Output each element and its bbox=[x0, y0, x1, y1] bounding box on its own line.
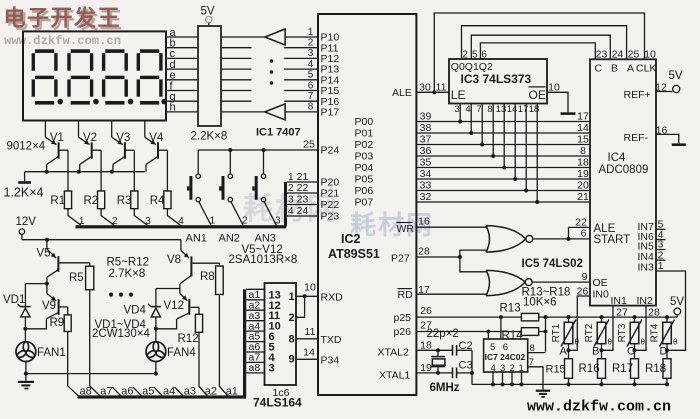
svg-text:8: 8 bbox=[308, 102, 314, 113]
node A1 V5 collector bbox=[45, 282, 49, 286]
svg-text:5V: 5V bbox=[670, 296, 684, 308]
wire IN1 to B bbox=[602, 306, 614, 351]
svg-text:5V: 5V bbox=[201, 6, 215, 18]
wire segment c left bbox=[166, 57, 198, 59]
svg-text:REF-: REF- bbox=[624, 132, 649, 144]
wire p25 to pin6 bbox=[500, 317, 502, 339]
wire IC7 gnd pin bbox=[492, 372, 494, 384]
svg-text:2SA1013R×8: 2SA1013R×8 bbox=[229, 254, 298, 266]
resistor R17 bbox=[631, 359, 639, 379]
svg-text:12V: 12V bbox=[16, 216, 37, 228]
svg-text:RXD: RXD bbox=[321, 292, 344, 304]
svg-text:2.7K×8: 2.7K×8 bbox=[109, 268, 146, 280]
wire NOR2 out bbox=[532, 281, 590, 283]
wire segment f right bbox=[221, 90, 252, 92]
ellipsis channels bbox=[109, 293, 133, 297]
wire segment g right bbox=[221, 100, 252, 102]
svg-text:XTAL1: XTAL1 bbox=[379, 370, 410, 382]
node FAN4 rail bbox=[154, 372, 158, 376]
wire IC3 pin 13 drop bbox=[503, 104, 505, 168]
wire V5 base to R5 bbox=[89, 263, 91, 266]
svg-text:33: 33 bbox=[420, 179, 432, 191]
wire node C to R17 bbox=[634, 350, 636, 358]
wire ladder rung 6 bbox=[246, 341, 264, 343]
wire vcc join bbox=[545, 317, 547, 352]
wire buffer out a bbox=[285, 36, 318, 38]
svg-text:θ: θ bbox=[641, 338, 646, 347]
pushbutton AN3 bbox=[252, 174, 276, 226]
svg-text:2CW130×4: 2CW130×4 bbox=[92, 328, 150, 340]
wire R13 right bbox=[539, 316, 546, 318]
svg-text:IC4: IC4 bbox=[608, 152, 627, 164]
wire IN4 stub bbox=[656, 259, 666, 261]
resistor R2 bbox=[98, 191, 105, 209]
fan FAN1 bbox=[16, 342, 36, 362]
svg-text:P24: P24 bbox=[321, 145, 340, 157]
svg-text:VD1: VD1 bbox=[3, 294, 25, 306]
svg-text:7: 7 bbox=[476, 104, 481, 115]
svg-text:8: 8 bbox=[288, 334, 294, 346]
power 5V display bbox=[201, 6, 215, 27]
svg-text:34: 34 bbox=[420, 168, 432, 180]
display digit 2 bbox=[67, 49, 98, 104]
wire IC3 pin 3 drop bbox=[459, 104, 461, 122]
bus tap a5 bbox=[133, 387, 141, 396]
svg-text:P06: P06 bbox=[355, 185, 374, 197]
node R17 gnd bbox=[633, 382, 637, 386]
svg-text:V8: V8 bbox=[167, 254, 181, 266]
node IC7 gnd bbox=[501, 382, 505, 386]
svg-text:2: 2 bbox=[462, 50, 468, 61]
wire R2 to bus bbox=[101, 209, 114, 226]
svg-text:2: 2 bbox=[288, 312, 294, 324]
fan FAN4 bbox=[146, 342, 166, 362]
node Q3-P03 bbox=[491, 154, 495, 158]
svg-text:a5: a5 bbox=[142, 386, 154, 398]
wire node D to R18 bbox=[666, 350, 668, 358]
wire Q2 to C bbox=[480, 43, 595, 59]
node R14 vcc bbox=[544, 330, 548, 334]
wire RT3 top bbox=[634, 317, 636, 322]
svg-text:LE: LE bbox=[451, 88, 466, 102]
node C3 gnd riser bbox=[470, 371, 474, 375]
transistor V3 9012 bbox=[112, 121, 135, 192]
svg-text:4: 4 bbox=[288, 206, 294, 217]
svg-text:36: 36 bbox=[420, 145, 432, 157]
svg-text:a2: a2 bbox=[205, 386, 217, 398]
wire caps ground bbox=[471, 350, 473, 384]
svg-text:A: A bbox=[560, 345, 568, 357]
svg-text:2: 2 bbox=[288, 183, 294, 194]
wire P16 stub bbox=[284, 100, 318, 102]
node V5 emitter bbox=[45, 238, 49, 242]
transistor V1 9012 bbox=[45, 121, 68, 192]
wire R12 to a2 tap bbox=[199, 332, 207, 396]
transistor V4 9012 bbox=[145, 121, 168, 192]
svg-text:7: 7 bbox=[308, 91, 314, 102]
svg-text:V1: V1 bbox=[50, 132, 64, 144]
wire node A to R15 bbox=[568, 350, 570, 358]
svg-text:C3: C3 bbox=[459, 359, 473, 371]
wire R18 bottom bbox=[666, 378, 668, 384]
resistor R4 bbox=[164, 191, 171, 209]
svg-text:38: 38 bbox=[420, 122, 432, 134]
wire RT3 bottom bbox=[634, 344, 636, 351]
wire ladder rung 2 bbox=[246, 299, 264, 301]
wire P04 bbox=[416, 167, 590, 169]
wire FAN1 bottom bbox=[25, 362, 27, 374]
node IC7 gnd bbox=[520, 382, 524, 386]
svg-text:a4: a4 bbox=[163, 386, 175, 398]
wire R17 bottom bbox=[634, 378, 636, 384]
wire segment b left bbox=[166, 47, 198, 49]
svg-text:14: 14 bbox=[577, 122, 589, 134]
wire IC3 pin 8 drop bbox=[492, 104, 494, 157]
wire P27 to NOR1 bbox=[460, 250, 488, 257]
thermistor RT2 bbox=[594, 320, 609, 347]
svg-text:R2: R2 bbox=[84, 195, 99, 207]
svg-text:C2: C2 bbox=[459, 340, 473, 352]
wire IC3 pin 4 drop bbox=[470, 104, 472, 134]
node VD4-FAN4 bbox=[154, 327, 158, 331]
wire WR bbox=[416, 226, 487, 228]
bus tap a4 bbox=[154, 387, 162, 396]
wire IC3 pin 18 drop bbox=[536, 104, 538, 203]
svg-text:Q0Q1Q2: Q0Q1Q2 bbox=[451, 61, 493, 73]
wire P07 bbox=[416, 201, 590, 203]
svg-text:R16: R16 bbox=[579, 363, 600, 375]
wire P03 bbox=[416, 155, 590, 157]
svg-text:10: 10 bbox=[304, 282, 316, 294]
svg-text:B: B bbox=[592, 345, 599, 357]
resistor R1 bbox=[64, 191, 71, 209]
ellipsis buffers bbox=[270, 59, 274, 85]
svg-text:WR: WR bbox=[397, 223, 415, 235]
wire ground rail bbox=[472, 383, 667, 385]
wire 5V rail bbox=[546, 316, 678, 318]
svg-text:R5: R5 bbox=[69, 272, 84, 284]
wire IN2 to C bbox=[635, 306, 647, 351]
ground REF- bbox=[656, 134, 686, 146]
ground fans bbox=[18, 374, 34, 390]
svg-text:19: 19 bbox=[577, 168, 589, 180]
node A bbox=[567, 348, 571, 352]
wire segment c right bbox=[221, 57, 252, 59]
wire IC7 gnd pin bbox=[511, 372, 513, 384]
svg-text:6: 6 bbox=[308, 80, 314, 91]
wire FAN4 bottom bbox=[155, 362, 157, 374]
node p25-SCL bbox=[499, 315, 503, 319]
svg-text:RT3: RT3 bbox=[617, 323, 628, 342]
svg-text:20: 20 bbox=[577, 179, 589, 191]
wire segment b right bbox=[221, 47, 252, 49]
svg-text:a3: a3 bbox=[184, 386, 196, 398]
svg-text:R14: R14 bbox=[502, 330, 524, 342]
svg-text:C: C bbox=[627, 345, 635, 357]
node p26-SDA bbox=[486, 330, 490, 334]
svg-text:R3: R3 bbox=[117, 195, 132, 207]
wire segment e right bbox=[221, 79, 252, 81]
wire XTAL2 bbox=[416, 349, 452, 351]
wire IC7 gnd pin bbox=[502, 372, 504, 384]
wire AN1 drop bbox=[197, 150, 199, 174]
svg-text:VD4: VD4 bbox=[124, 304, 147, 316]
display digit 1 bbox=[32, 49, 63, 104]
svg-text:6: 6 bbox=[581, 228, 587, 240]
svg-text:74LS164: 74LS164 bbox=[253, 396, 302, 410]
svg-text:XTAL2: XTAL2 bbox=[378, 347, 409, 359]
wire IN7 stub bbox=[656, 228, 666, 230]
wire P02 bbox=[416, 144, 590, 146]
wire segment h to buffer bbox=[221, 111, 265, 113]
wire XTAL1 bbox=[416, 372, 452, 374]
wire emitter rail bbox=[25, 171, 145, 173]
wire P27 to NOR2 bbox=[460, 257, 488, 272]
svg-text:8: 8 bbox=[487, 104, 492, 115]
svg-text:18: 18 bbox=[577, 156, 589, 168]
wire to START pin6 bbox=[569, 238, 591, 240]
latch IC3 74LS373 bbox=[449, 59, 547, 104]
svg-text:28: 28 bbox=[418, 246, 430, 258]
svg-text:θ: θ bbox=[673, 338, 678, 347]
svg-text:R18: R18 bbox=[645, 363, 666, 375]
node R13 vcc bbox=[544, 315, 548, 319]
node V3 rail bbox=[110, 170, 114, 174]
svg-text:P00: P00 bbox=[355, 116, 374, 128]
wire R4 to bus bbox=[167, 209, 180, 226]
wire V8 base to R8 bbox=[218, 263, 220, 266]
wire TXD bbox=[296, 338, 318, 340]
svg-text:26: 26 bbox=[420, 305, 432, 317]
wire RT4 bottom bbox=[666, 344, 668, 351]
svg-text:V5: V5 bbox=[37, 248, 51, 260]
node RT2 5V bbox=[600, 315, 604, 319]
wire pin2 to RXD bbox=[296, 296, 305, 317]
transistor V8 bbox=[180, 240, 220, 289]
node ALE-START bbox=[567, 237, 571, 241]
label WR bbox=[397, 223, 415, 235]
svg-text:8: 8 bbox=[580, 145, 586, 157]
wire segment g left bbox=[166, 100, 198, 102]
transistor V2 9012 bbox=[79, 121, 102, 192]
svg-text:4: 4 bbox=[465, 104, 470, 115]
wire ladder rung 3 bbox=[246, 309, 264, 311]
wire segment d left bbox=[166, 68, 198, 70]
svg-text:P27: P27 bbox=[391, 253, 410, 265]
node RXD join bbox=[303, 294, 307, 298]
svg-text:IC7 24C02: IC7 24C02 bbox=[485, 352, 526, 362]
wire p26 to pin5 bbox=[487, 332, 489, 340]
wire IN0 to A bbox=[569, 296, 591, 350]
svg-text:9: 9 bbox=[582, 271, 588, 283]
svg-text:RD: RD bbox=[398, 289, 414, 301]
svg-text:θ: θ bbox=[575, 338, 580, 347]
wire p26 bbox=[416, 331, 521, 333]
wire P05 bbox=[416, 178, 590, 180]
wire P06 bbox=[416, 190, 590, 192]
bus 74LS164 outputs bbox=[78, 289, 247, 398]
svg-text:a8: a8 bbox=[80, 386, 92, 398]
wire ladder rung 1 bbox=[246, 288, 264, 290]
4-digit 7-segment display DS1 bbox=[23, 31, 166, 120]
svg-text:2.2K×8: 2.2K×8 bbox=[191, 131, 228, 143]
svg-text:39: 39 bbox=[420, 110, 432, 122]
wire ladder rung 5 bbox=[246, 330, 264, 332]
capacitor C2 bbox=[453, 345, 473, 356]
svg-text:IN3: IN3 bbox=[638, 262, 655, 274]
wire ladder rung 9 bbox=[246, 372, 264, 374]
svg-text:ALE: ALE bbox=[392, 87, 412, 99]
node Q0-P00 bbox=[458, 120, 462, 124]
svg-text:1: 1 bbox=[210, 216, 216, 227]
svg-text:IC3 74LS373: IC3 74LS373 bbox=[461, 72, 532, 86]
mcu IC2 AT89S51 bbox=[318, 14, 416, 395]
wire P15 stub bbox=[284, 90, 318, 92]
nor gate IC5a bbox=[486, 226, 533, 253]
wire RT4 top bbox=[666, 317, 668, 322]
wire P12 stub bbox=[284, 57, 318, 59]
svg-text:a6: a6 bbox=[121, 386, 133, 398]
svg-text:OE: OE bbox=[529, 88, 546, 102]
wire 12V rail bbox=[22, 239, 181, 241]
svg-text:www.dzkfw.com.cn: www.dzkfw.com.cn bbox=[4, 34, 121, 48]
wire R16 bottom bbox=[601, 378, 603, 384]
wire segment d right bbox=[221, 68, 252, 70]
bus tap a3 bbox=[175, 387, 183, 396]
svg-text:ALE: ALE bbox=[594, 223, 616, 235]
svg-text:9: 9 bbox=[288, 354, 294, 366]
svg-text:1: 1 bbox=[288, 291, 294, 303]
wire ladder rung 7 bbox=[246, 351, 264, 353]
node Q7-P07 bbox=[535, 200, 539, 204]
wire RD bbox=[416, 293, 487, 295]
svg-text:P23: P23 bbox=[321, 211, 340, 223]
wire P14 stub bbox=[284, 79, 318, 81]
svg-text:V9: V9 bbox=[42, 300, 56, 312]
resistor network RN1 2.2Kx8 bbox=[198, 26, 221, 126]
svg-text:R12: R12 bbox=[178, 333, 199, 345]
resistor R16 bbox=[598, 359, 606, 379]
svg-text:V2: V2 bbox=[83, 132, 97, 144]
resistor R3 bbox=[131, 191, 138, 209]
wire R3 to bus bbox=[134, 209, 147, 226]
wire RT1 top bbox=[568, 317, 570, 322]
svg-text:电子开发王: 电子开发王 bbox=[4, 6, 122, 31]
node R15 gnd bbox=[567, 382, 571, 386]
thermistor RT3 bbox=[627, 320, 642, 347]
wire segment f left bbox=[166, 90, 198, 92]
svg-text:22: 22 bbox=[575, 216, 587, 228]
svg-text:14: 14 bbox=[507, 104, 518, 115]
svg-text:C: C bbox=[595, 62, 603, 74]
svg-text:1: 1 bbox=[288, 172, 294, 183]
node Q1-P01 bbox=[469, 131, 473, 135]
buffer IC1a bbox=[265, 29, 285, 45]
svg-text:15: 15 bbox=[577, 133, 589, 145]
node C bbox=[633, 348, 637, 352]
svg-text:p25: p25 bbox=[394, 312, 412, 324]
svg-text:5: 5 bbox=[472, 50, 478, 61]
svg-text:4: 4 bbox=[308, 59, 314, 70]
node R16 gnd bbox=[600, 382, 604, 386]
wire R15 bottom bbox=[568, 378, 570, 384]
wire P23 bbox=[287, 215, 318, 217]
node RT4 5V bbox=[665, 315, 669, 319]
svg-text:32: 32 bbox=[420, 191, 432, 203]
resistor R9 bbox=[64, 315, 71, 332]
wire OE ground bbox=[547, 92, 568, 112]
svg-text:B: B bbox=[611, 62, 618, 74]
wire P00 bbox=[416, 121, 590, 123]
svg-text:P07: P07 bbox=[355, 197, 374, 209]
svg-text:www.dzkfw.com.cn: www.dzkfw.com.cn bbox=[527, 399, 671, 415]
svg-text:V4: V4 bbox=[149, 132, 164, 144]
svg-text:REF+: REF+ bbox=[624, 89, 651, 101]
svg-text:R5~R12: R5~R12 bbox=[107, 257, 150, 269]
node V1 rail bbox=[45, 170, 49, 174]
wire IC3 pin 7 drop bbox=[481, 104, 483, 145]
bus keypad bbox=[76, 182, 288, 228]
node RT3 5V bbox=[633, 315, 637, 319]
svg-text:IN1: IN1 bbox=[611, 295, 628, 307]
wire FAN4 top bbox=[155, 329, 157, 342]
svg-text:21: 21 bbox=[577, 191, 589, 203]
wire P22 bbox=[287, 204, 318, 206]
svg-text:a8: a8 bbox=[249, 362, 261, 374]
svg-text:22p×2: 22p×2 bbox=[427, 328, 459, 340]
svg-text:35: 35 bbox=[420, 156, 432, 168]
wire P27 bbox=[416, 256, 460, 258]
resistor R8 bbox=[216, 266, 224, 295]
wire ladder rung 8 bbox=[246, 361, 264, 363]
svg-text:3: 3 bbox=[275, 216, 281, 227]
svg-text:14: 14 bbox=[303, 346, 315, 358]
node B bbox=[600, 348, 604, 352]
svg-text:37: 37 bbox=[420, 133, 432, 145]
wire IN6 stub bbox=[656, 239, 666, 241]
svg-text:2: 2 bbox=[242, 216, 248, 227]
node FAN1 rail bbox=[24, 372, 28, 376]
wire P01 bbox=[416, 132, 590, 134]
node V2 rail bbox=[77, 170, 81, 174]
svg-text:P02: P02 bbox=[355, 139, 374, 151]
wire Q1 to B bbox=[471, 35, 610, 59]
nor gate IC5b bbox=[486, 270, 532, 295]
wire R9 to a8 tap bbox=[68, 332, 79, 396]
power 5V dividers bbox=[670, 296, 684, 317]
svg-text:V12: V12 bbox=[164, 300, 184, 312]
node P24-AN3 bbox=[262, 148, 266, 152]
node XTAL1 xtal bbox=[436, 371, 440, 375]
node P27 branch bbox=[458, 255, 462, 259]
wire P13 stub bbox=[284, 68, 318, 70]
svg-text:13: 13 bbox=[496, 104, 507, 115]
wire R5 to a7 tap bbox=[90, 290, 100, 396]
shift register IC6 74LS164 bbox=[265, 283, 297, 385]
resistor R15 bbox=[565, 359, 573, 379]
wire segment a left bbox=[166, 36, 198, 38]
wire AN2 drop bbox=[229, 150, 231, 174]
svg-text:RT1: RT1 bbox=[551, 323, 562, 342]
svg-text:CLK: CLK bbox=[636, 62, 656, 74]
svg-text:R8: R8 bbox=[200, 271, 215, 283]
svg-text:AN1: AN1 bbox=[186, 232, 207, 244]
svg-text:P04: P04 bbox=[355, 162, 374, 174]
svg-text:2: 2 bbox=[308, 38, 314, 49]
svg-text:P22: P22 bbox=[321, 199, 340, 211]
wire fan return rail bbox=[26, 373, 156, 375]
thermistor RT4 bbox=[660, 320, 675, 347]
